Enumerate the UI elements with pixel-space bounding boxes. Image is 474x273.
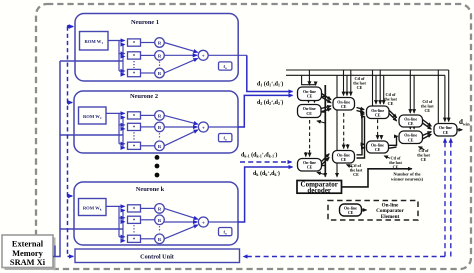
wire ctl-in stub U2 — [317, 121, 325, 123]
on-line CE U6 — [367, 106, 390, 119]
external memory SRAM Xi shadow — [5, 238, 56, 271]
wire U1 out to U4 — [322, 94, 332, 100]
svg-text:CE: CE — [357, 85, 363, 90]
on-line CE U9 — [399, 131, 423, 144]
on-line CE U8 — [399, 115, 423, 127]
control unit box — [75, 249, 240, 263]
ellipsis dots between neurones — [155, 155, 160, 160]
on-line CE U3 — [298, 159, 322, 172]
wire U2 tap to decoder vertical — [321, 111, 325, 113]
svg-text:R: R — [158, 114, 162, 119]
wire ctl branch neurone 2 — [68, 102, 73, 104]
legend arrow — [362, 209, 367, 211]
wire R3 to adder — [164, 58, 197, 73]
wire decoder feed vertical — [324, 85, 326, 177]
wire U5 out up to U6 pair — [357, 114, 365, 155]
svg-text:R: R — [158, 71, 162, 76]
wire X bus from SRAM — [53, 61, 123, 257]
wire U1 tap to decoder vertical — [322, 96, 326, 98]
activation box f1 — [219, 62, 232, 70]
wire ROM Wk output — [106, 206, 119, 236]
comparator decoder box — [297, 181, 342, 194]
on-line CE U2 — [298, 105, 322, 118]
multiplier M4 — [128, 112, 141, 119]
wire adder 2 output — [208, 126, 238, 128]
svg-text:+: + — [202, 125, 205, 131]
svg-text:CE: CE — [341, 104, 347, 109]
svg-text:Element: Element — [381, 214, 400, 220]
svg-text:CE: CE — [375, 113, 381, 118]
wire bus drops U10 final — [448, 70, 450, 121]
wire ctl-in stub U9 — [419, 147, 425, 150]
wire X feed neurone 2 — [60, 134, 123, 136]
svg-text:Control Unit: Control Unit — [140, 253, 175, 260]
ROM W2 box — [79, 107, 107, 124]
multiplier M3 — [128, 69, 141, 76]
wire blue dashed feedback to control unit — [244, 256, 446, 258]
on-line CE U4 — [333, 98, 355, 111]
on-line CE U7 — [367, 141, 389, 153]
svg-text:fa: fa — [223, 136, 227, 142]
svg-text:+: + — [202, 54, 205, 60]
ROM Wk box — [79, 199, 107, 216]
svg-text:R: R — [158, 207, 162, 212]
multiplier M6 — [128, 142, 141, 149]
wire bus drop to decoder via x337 — [336, 75, 338, 177]
wire dashed control line from control unit — [68, 27, 74, 257]
multiplier M5 — [128, 123, 141, 130]
svg-text:R: R — [158, 41, 162, 46]
ROM W1 box — [80, 32, 109, 51]
neurone block 1 — [75, 14, 238, 82]
wire R1 to adder — [164, 43, 197, 53]
svg-text:d2 (d2+,d2-): d2 (d2+,d2-) — [257, 99, 283, 106]
svg-text:CE: CE — [375, 147, 381, 152]
wire dashed ellipsis U2 to U3 — [309, 120, 311, 150]
activation box fk — [219, 228, 232, 236]
wire bus drops U8 — [409, 70, 411, 113]
on-line CE U5 — [333, 151, 355, 164]
svg-text:CE: CE — [307, 94, 313, 99]
svg-text:+: + — [202, 220, 205, 226]
svg-text:fa: fa — [223, 64, 227, 70]
wire blue dashed up to U10 left — [444, 139, 446, 257]
svg-text:R: R — [158, 144, 162, 149]
svg-text:CE: CE — [408, 121, 414, 126]
dotted ellipsis multipliers — [133, 61, 135, 68]
dotted ellipsis registers 2 — [159, 133, 161, 139]
wire dashed ellipsis U6 to U7 — [377, 120, 379, 135]
register R9 — [155, 234, 165, 244]
svg-text:winner neuron(s): winner neuron(s) — [391, 177, 424, 182]
dotted ellipsis multipliers 2 — [133, 132, 135, 140]
svg-text:Memory: Memory — [12, 249, 44, 258]
wire taps into U7 left — [362, 143, 364, 145]
node ctl junction 1 — [67, 25, 70, 28]
wire dwin output — [457, 129, 462, 131]
dotted ellipsis registers — [159, 62, 161, 68]
svg-text:R: R — [158, 218, 162, 223]
wire dk-1 dashed to CE U3 — [240, 161, 292, 163]
svg-text:Neurone 2: Neurone 2 — [130, 93, 158, 100]
node ctl junction 2 — [67, 101, 70, 104]
wire d2 from neurone 2 to CE U1 — [238, 95, 293, 127]
wire ctl-in stub U5 — [347, 165, 353, 168]
svg-text:decoder: decoder — [307, 187, 331, 195]
svg-text:R: R — [158, 54, 162, 59]
svg-text:ROM Wk: ROM Wk — [83, 205, 102, 211]
svg-text:Neurone 1: Neurone 1 — [131, 19, 159, 26]
on-line CE U1 — [298, 87, 322, 101]
multiplier M9 — [128, 235, 141, 242]
svg-text:CE: CE — [408, 137, 414, 142]
wire U9 out to U10 — [423, 132, 432, 136]
dotted ellipsis multipliers k — [133, 225, 135, 233]
register R7 — [155, 204, 165, 214]
register R8 — [155, 215, 165, 225]
svg-text:R: R — [158, 125, 162, 130]
register R1 — [155, 38, 165, 48]
wire bus drop U1 — [308, 70, 310, 85]
wire ctl branch neurone 1 — [68, 26, 74, 28]
node ctl junction k — [67, 194, 70, 197]
svg-text:R: R — [158, 237, 162, 242]
svg-text:CE: CE — [388, 101, 394, 106]
svg-text:ROM W1: ROM W1 — [84, 39, 103, 45]
on-line CE U10 final — [434, 124, 457, 137]
multiplier M1 — [128, 39, 141, 46]
wire ctl-in stub U7 — [384, 156, 390, 159]
neurone block 2 — [74, 91, 238, 153]
svg-text:dwin: dwin — [459, 118, 470, 126]
svg-text:Neurone k: Neurone k — [136, 186, 165, 193]
wire d1 from neurone 1 to CE U1 — [247, 55, 293, 91]
wire bus drops U4 — [343, 70, 345, 95]
wire adder 1 output — [208, 54, 247, 56]
wire ctl bus lower — [286, 74, 445, 76]
activation box f2 — [219, 134, 232, 142]
wire U8 out to U10 — [423, 120, 432, 127]
wire dk from neurone k to CE U3 — [238, 167, 293, 222]
svg-text:ROM W2: ROM W2 — [83, 114, 102, 120]
register R5 — [155, 122, 165, 132]
svg-text:dk-1 (dk-1+,dk-1-): dk-1 (dk-1+,dk-1-) — [241, 152, 277, 159]
wire X vertical neurone k — [122, 210, 124, 240]
wire R2 to adder — [164, 54, 197, 56]
wire adder k output — [208, 221, 238, 223]
svg-text:CE: CE — [307, 165, 313, 170]
svg-text:CE: CE — [424, 108, 430, 113]
wire ROM W1 output — [108, 41, 119, 72]
legend CE sample box — [340, 204, 362, 216]
svg-text:CE: CE — [341, 157, 347, 162]
register R3 — [155, 68, 165, 78]
wire U3 out to U5 — [322, 154, 330, 162]
multiplier M2 — [128, 52, 141, 59]
svg-text:d1 (d1+,d1-): d1 (d1+,d1-) — [257, 81, 283, 88]
wire X vertical neurone 2 — [122, 117, 124, 147]
wire ctl branch neurone k — [68, 195, 73, 197]
wire U7 out up to U9 — [389, 136, 398, 145]
register R2 — [155, 51, 165, 61]
wire M3 to R3 — [141, 72, 155, 74]
wire weight input arrows M1..M3 — [119, 40, 125, 42]
svg-text:CE: CE — [306, 111, 312, 116]
svg-text:SRAM Xi: SRAM Xi — [10, 258, 46, 267]
wire decoder output to winner count — [342, 169, 412, 187]
wire X feed neurone k — [60, 228, 123, 230]
svg-text:External: External — [12, 240, 44, 249]
wire U6 out to U8 — [388, 109, 397, 118]
wire stub near SRAM top — [54, 246, 56, 257]
neurone block k — [74, 182, 238, 245]
adder neurone 1 — [198, 50, 208, 60]
svg-text:CE: CE — [421, 157, 427, 162]
multiplier M8 — [128, 216, 141, 223]
legend dashed box — [328, 201, 418, 221]
wire X feed neurone 1 — [60, 60, 123, 62]
wire ctl-in stub U3 — [317, 172, 325, 174]
wire U4 out to U6 — [357, 108, 365, 110]
multiplier M7 — [128, 205, 141, 212]
adder neurone 2 — [198, 122, 208, 132]
dotted ellipsis registers k — [159, 226, 161, 232]
wire bus step into U1 top — [302, 75, 316, 85]
wire bus drops U6 — [372, 70, 374, 106]
wire M1 to R1 — [141, 42, 155, 44]
adder neurone k — [198, 217, 208, 227]
wire ctl bus upper — [286, 69, 449, 71]
svg-text:CE: CE — [443, 130, 449, 135]
svg-text:fa: fa — [223, 230, 227, 236]
wire ROM W2 output — [106, 113, 119, 143]
svg-text:CE: CE — [353, 172, 359, 177]
wire data input arrows M1..M3 — [123, 44, 125, 46]
wire U8 to U9 stubs — [409, 127, 411, 129]
wire blue dashed up to U10 right — [450, 139, 452, 257]
register R6 — [155, 141, 165, 151]
wire X vertical neurone 1 — [122, 45, 124, 75]
svg-text:dk (dk+,dk-): dk (dk+,dk-) — [253, 170, 280, 177]
wire M2 to R2 — [141, 54, 155, 56]
register R4 — [155, 111, 165, 121]
svg-text:CE: CE — [348, 210, 354, 215]
wire U1 to U2 stubs — [308, 101, 310, 103]
wire U3 tap to decoder vertical — [322, 165, 326, 167]
external memory SRAM Xi box — [2, 235, 53, 268]
wire U2 out to U4 — [321, 106, 331, 109]
wire dashed ellipsis U4 to U5 — [343, 113, 345, 143]
